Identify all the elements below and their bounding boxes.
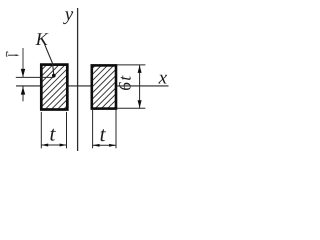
left rectangle hatched	[41, 65, 67, 110]
svg-text:6t: 6t	[115, 75, 135, 91]
right rectangle hatched	[92, 65, 116, 108]
svg-text:x: x	[158, 68, 168, 89]
left t label with leader arrow	[5, 49, 19, 60]
x axis (right segment)	[117, 85, 168, 87]
bottom right t dimension	[93, 110, 116, 148]
left t dimension upper line with down arrow	[21, 48, 25, 77]
extension line at point K level	[16, 76, 54, 78]
K leader line	[45, 45, 54, 76]
svg-text:y: y	[63, 4, 74, 25]
left t dimension lower line with up arrow	[21, 86, 25, 101]
svg-text:t: t	[5, 49, 8, 60]
y axis	[77, 8, 79, 151]
point K dot	[52, 74, 56, 78]
bottom left t dimension	[41, 112, 66, 148]
svg-text:K: K	[35, 29, 49, 49]
6t dimension right side	[115, 65, 146, 108]
x axis (left segment through left rectangle)	[16, 85, 91, 87]
